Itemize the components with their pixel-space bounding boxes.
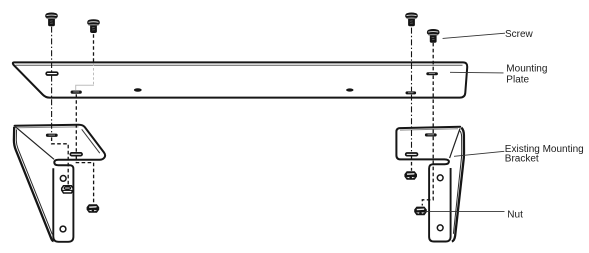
- dashed route slot to upper nut: [411, 156, 413, 171]
- nut right upper: [405, 172, 416, 179]
- left bracket gusset outer edge: [14, 127, 54, 241]
- svg-text:Mounting: Mounting: [506, 64, 547, 75]
- dashed line plate hole2 to flange slot B: [75, 94, 77, 152]
- right bracket gusset outer edge: [452, 128, 464, 242]
- left leg hole upper: [60, 176, 66, 182]
- left bracket fold line: [15, 127, 54, 160]
- screw 1: [45, 13, 58, 27]
- svg-text:Plate: Plate: [506, 75, 529, 86]
- left leg hole lower: [60, 226, 66, 232]
- plate slot right lower (filled): [406, 91, 417, 94]
- left bracket flange outline: [15, 125, 106, 165]
- dashed line screw4 to plate: [432, 43, 434, 72]
- right bracket gusset thickness line: [453, 131, 461, 234]
- mounting plate thickness line: [16, 64, 463, 66]
- mounting plate outline: [13, 62, 467, 97]
- left bracket flange right-edge thickness line: [82, 129, 100, 153]
- right leg hole upper: [437, 175, 443, 181]
- nut on left leg: [62, 186, 73, 193]
- dashed route slot A to leg nut: [52, 137, 69, 184]
- center line screw1 to plate hole: [51, 27, 53, 72]
- center line screw3 to plate hole: [411, 28, 413, 92]
- center line plate hole to flange slot: [411, 95, 413, 153]
- plate slot left upper (outline): [46, 72, 58, 75]
- plate slot right upper (filled): [426, 72, 438, 75]
- left bracket flange top thickness line: [17, 126, 79, 129]
- dashed line plate hole to flange slot: [432, 75, 434, 133]
- right flange slot upper (filled): [425, 133, 437, 136]
- screw 4: [427, 29, 440, 43]
- plate slot left lower (filled): [71, 91, 82, 94]
- left flange slot B (outline): [70, 153, 82, 156]
- right bracket leg: [429, 164, 451, 241]
- screw 3: [405, 13, 418, 27]
- leader line to Mounting Plate label: [450, 71, 504, 74]
- dashed route flange slot down leg: [422, 137, 433, 206]
- dashed route slot B to floating nut: [76, 156, 93, 204]
- left bracket gusset thickness line: [16, 130, 52, 235]
- leader line to Existing Mounting Bracket label: [454, 151, 504, 156]
- floating nut left: [87, 205, 98, 212]
- right flange slot lower (outline): [406, 153, 418, 156]
- dashed line screw2 to plate: [93, 34, 95, 62]
- right bracket flange top thickness line: [400, 129, 458, 130]
- plate middle hole 1: [134, 88, 142, 91]
- center line plate hole to flange slot A: [51, 76, 53, 134]
- svg-text:Bracket: Bracket: [505, 154, 539, 165]
- leader line to Screw label: [443, 33, 505, 38]
- screw 2: [87, 19, 100, 33]
- svg-text:Nut: Nut: [507, 209, 523, 220]
- leader line to Nut label: [425, 210, 505, 212]
- svg-text:Screw: Screw: [505, 29, 534, 40]
- right bracket flange outline: [396, 127, 460, 165]
- hidden routing line (gray) screw2 into plate hole: [93, 63, 95, 85]
- right bracket fold line: [450, 129, 460, 159]
- nut right lower: [415, 207, 426, 214]
- left bracket leg: [53, 165, 73, 242]
- right leg hole lower: [437, 225, 443, 231]
- left flange slot A (filled): [46, 134, 58, 137]
- plate middle hole 2: [346, 88, 353, 91]
